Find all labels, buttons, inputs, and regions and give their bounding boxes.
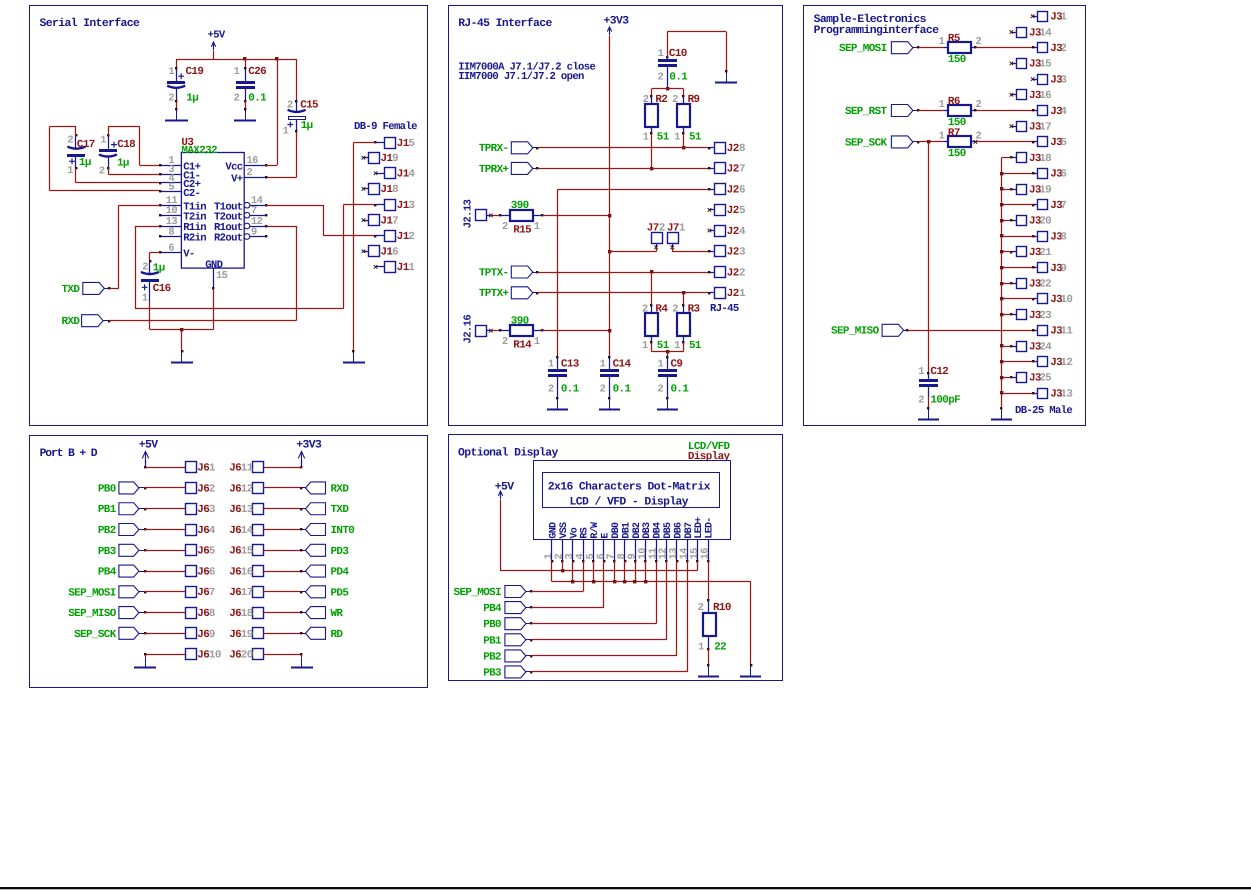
wire row B ground bus [552,581,751,583]
svg-text:15: 15 [241,546,253,558]
svg-text:2: 2 [99,165,105,177]
svg-text:J2: J2 [727,164,739,176]
svg-text:PB1: PB1 [98,504,117,516]
junction +3V3/R14 [608,329,611,332]
svg-text:J6: J6 [197,546,209,558]
svg-text:TPTX+: TPTX+ [479,288,509,300]
ground right of C10 [726,72,728,82]
connector pin J27 [715,163,726,174]
connector pin J32 [1038,43,1048,53]
svg-text:PB3: PB3 [98,546,116,558]
svg-text:12: 12 [241,483,253,495]
capacitor C15 [296,59,298,101]
svg-text:J2: J2 [727,288,739,300]
connector pin J36 [1038,169,1048,179]
svg-text:14: 14 [241,525,254,537]
ground left box4 [145,657,147,667]
connector pin J617 [253,587,264,598]
svg-text:E: E [601,533,612,539]
wire to R9 top [683,89,685,97]
sheet bottom border line [0,887,1251,889]
svg-text:3: 3 [739,247,745,259]
junction +5V/VCC [275,57,278,60]
svg-text:7: 7 [1060,200,1066,212]
connector pin J22 [715,267,726,278]
svg-text:J2.13: J2.13 [462,199,474,228]
svg-text:11: 11 [1060,326,1073,338]
svg-text:2: 2 [698,602,704,614]
connector pin J616 [253,566,264,577]
pin R2in 8 [160,236,181,238]
svg-text:1: 1 [918,366,924,378]
connector pin J321 [1017,247,1027,257]
svg-text:2: 2 [1060,43,1066,55]
svg-text:0.1: 0.1 [671,383,690,395]
connector pin J310 [1038,294,1048,304]
svg-text:15: 15 [216,270,228,282]
svg-text:RXD: RXD [61,316,80,328]
wire pin15 stub [697,561,699,570]
svg-text:13: 13 [1060,388,1072,400]
wire +5V to J61 [145,460,147,466]
pin Vcc 16 [244,165,266,167]
svg-text:Port B + D: Port B + D [40,448,98,460]
svg-text:RXD: RXD [331,483,350,495]
svg-text:14: 14 [1039,27,1052,39]
wire J619 to RD [300,632,302,634]
ground under DB-25 bus [1001,409,1003,420]
connector pin J37 [1038,200,1048,210]
svg-text:1µ: 1µ [186,93,198,105]
net flag WR [306,607,326,619]
svg-text:1: 1 [234,66,240,78]
junction bus J36 [1000,172,1003,175]
svg-text:C2-: C2- [183,188,200,200]
svg-text:PD3: PD3 [331,546,349,558]
svg-text:R9: R9 [688,94,700,106]
connector pin J61 [186,462,197,473]
wire +3V3 to J72 [609,251,656,253]
svg-text:25: 25 [1039,373,1051,385]
wire C15 to V+ [296,132,298,178]
wire row B to ground right [750,582,752,666]
svg-text:1: 1 [548,358,554,370]
wire bus to J37 [1002,204,1033,206]
svg-text:PB0: PB0 [98,483,116,495]
pin V+ 2 [244,177,266,179]
svg-text:1: 1 [1060,12,1067,24]
wire pin5 to row B [593,561,595,582]
svg-text:J6: J6 [229,629,241,641]
junction bus J321 [1000,250,1003,253]
wire C26 to ground [245,101,247,109]
ground under C19 [176,110,178,121]
wire R9 to TPRX- [683,133,685,147]
junction ground net [180,328,183,331]
svg-text:3: 3 [408,200,414,212]
capacitor C9 [666,356,668,358]
frame Port B + D [30,436,428,688]
wire SEP_RST to R6 [917,109,919,111]
junction +5V/C26 [243,57,246,60]
pin T1in 11 [160,205,181,207]
connector pin J68 [186,608,197,619]
frame Sample-Electronics Programminginterface [804,6,1086,426]
wire R4/R3 bottoms to C9 [651,343,653,352]
svg-text:2: 2 [672,303,678,315]
wire PB1 to J63 [144,508,146,510]
svg-text:5: 5 [168,182,174,194]
connector pin J322 [1017,279,1027,289]
wire SEP_MOSI to J67 [144,591,146,593]
wire pin16 to R10 [708,561,710,600]
wire RXD to R1out [108,320,110,322]
pin T2out 7 with bubble [244,212,250,218]
wire R7 to J35 [971,141,976,143]
svg-text:+5V: +5V [208,29,226,41]
svg-text:J6: J6 [229,525,241,537]
display pin DB5 12 [666,540,668,561]
wire SEP_SCK to C12 [928,142,930,373]
connector pin J614 [253,525,264,536]
svg-text:C16: C16 [153,283,171,295]
capacitor C19 [176,59,178,69]
svg-text:SEP_MOSI: SEP_MOSI [68,587,116,599]
svg-text:9: 9 [1060,263,1066,275]
junction rowB pin7 [613,580,616,583]
svg-text:1: 1 [658,358,664,370]
svg-text:J6: J6 [197,483,209,495]
capacitor C13 [556,356,558,358]
svg-text:R3: R3 [688,303,700,315]
connector pin J39 [1038,263,1048,273]
svg-text:J2: J2 [727,226,739,238]
connector pin J620 [253,649,264,660]
svg-text:DB0: DB0 [611,522,622,539]
wire bus to J39 [1002,267,1033,269]
ground under C26 [245,110,247,121]
svg-text:8: 8 [1060,231,1066,243]
connector pin J64 [186,525,197,536]
svg-text:2: 2 [658,72,664,84]
wire V- to C16 [150,252,161,254]
svg-text:R6: R6 [948,96,960,108]
svg-text:2: 2 [548,383,554,395]
svg-text:7: 7 [209,587,215,599]
ground under C13 [557,399,559,410]
svg-text:Serial Interface: Serial Interface [40,17,141,30]
display pin LED+ 15 [697,540,699,561]
ground under C9 [667,399,669,410]
capacitor C12 [928,373,930,379]
svg-text:J2: J2 [727,205,739,217]
svg-text:DB3: DB3 [642,522,653,539]
svg-text:3: 3 [209,504,215,516]
ground right box5 [750,666,752,677]
svg-text:4: 4 [209,525,216,537]
connector pin J35 [1038,137,1048,147]
junction +3V3/R15 [608,214,611,217]
connector pin J314 [1017,28,1027,38]
resistor R5 [948,42,971,53]
svg-text:2x16 Characters Dot-Matrix: 2x16 Characters Dot-Matrix [548,481,711,494]
svg-text:1: 1 [674,340,680,352]
display pin DB3 10 [645,540,647,561]
svg-text:J6: J6 [197,504,209,516]
svg-text:TXD: TXD [331,504,350,516]
display pin VSS 2 [562,540,564,561]
wire PB1 to pin12 [530,639,532,641]
frame Optional Display [449,435,783,681]
connector pin J63 [186,504,197,515]
svg-text:C10: C10 [669,48,687,60]
svg-text:PB3: PB3 [483,667,501,679]
pin T2in 10 [160,215,181,217]
svg-text:20: 20 [241,650,253,662]
svg-text:J6: J6 [229,608,241,620]
svg-text:LED-: LED- [705,517,716,538]
ground bus DB-25 [1001,158,1003,409]
display module DIS1 outline [534,461,731,540]
svg-text:22: 22 [1039,279,1051,291]
wire J618 to WR [300,611,302,613]
display pin DB2 9 [635,540,637,561]
svg-text:8: 8 [739,143,745,155]
svg-text:C19: C19 [186,66,204,78]
svg-text:TXD: TXD [61,284,80,296]
svg-text:J2: J2 [727,184,739,196]
svg-text:IIM7000 J7.1/J7.2 open: IIM7000 J7.1/J7.2 open [458,71,584,83]
svg-text:1: 1 [408,262,415,274]
connector pin J62 [186,483,197,494]
junction bus J38 [1000,234,1003,237]
+5V supply symbol P1 [211,42,215,51]
wire J26 to C13 [558,189,710,191]
svg-text:6: 6 [168,242,174,254]
svg-text:PB1: PB1 [483,635,502,647]
svg-text:4: 4 [739,226,746,238]
connector pin J67 [186,587,197,598]
svg-text:16: 16 [247,155,259,167]
junction rowB pin3 [571,580,574,583]
svg-text:J6: J6 [197,608,209,620]
svg-text:R10: R10 [713,602,731,614]
svg-text:R4: R4 [655,303,668,315]
junction bus J39 [1000,266,1003,269]
capacitor C14 [608,356,610,358]
svg-text:1: 1 [939,130,945,142]
wire C12 to ground [928,397,930,408]
svg-text:+3V3: +3V3 [604,16,630,28]
svg-text:2: 2 [642,303,648,315]
svg-text:RD: RD [331,629,344,641]
wire SEP_MISO to J311 [906,329,908,331]
connector pin J619 [253,628,264,639]
svg-text:J2: J2 [727,143,739,155]
svg-text:1: 1 [168,66,174,78]
connector pin J11 [385,262,396,273]
svg-text:J6: J6 [229,566,241,578]
connector pin J15 [385,138,396,149]
wire J610 to ground [145,654,185,656]
svg-text:Programminginterface: Programminginterface [814,24,939,37]
connector pin J325 [1017,373,1027,383]
wire R5 to J32 [971,47,976,49]
svg-text:J6: J6 [197,463,209,475]
svg-text:R15: R15 [513,224,531,236]
wire TPRX- to J28 [536,147,538,149]
svg-text:24: 24 [1039,341,1052,353]
svg-text:2: 2 [408,231,414,243]
svg-text:SEP_RST: SEP_RST [845,106,888,118]
svg-text:R7: R7 [948,127,960,139]
pin C1- 3 [160,174,181,176]
junction bus J313 [1000,391,1003,394]
svg-text:10: 10 [1060,294,1072,306]
wire pin7 to row B [614,561,616,582]
junction rowB pin5 [592,580,595,583]
svg-text:0.1: 0.1 [561,383,580,395]
wire bus to J36 [1002,173,1033,175]
svg-text:19: 19 [1039,184,1051,196]
svg-text:0.1: 0.1 [669,72,688,84]
wire GND pin down [213,288,215,329]
connector pin J319 [1017,185,1027,195]
svg-text:0.1: 0.1 [248,93,267,105]
svg-text:6: 6 [1060,169,1066,181]
svg-text:16: 16 [699,548,711,560]
junction TPTX-/R4 [650,270,653,273]
resistor R9 [683,97,685,105]
svg-text:4: 4 [1060,106,1067,118]
wire PB2 to pin13 [530,655,532,657]
junction +3V3/J23 [608,250,611,253]
svg-text:2: 2 [168,93,174,105]
svg-text:100pF: 100pF [930,394,960,406]
svg-text:3: 3 [1060,74,1066,86]
wire bus to J310 [1002,298,1033,300]
wire J2.16 to R14 [491,330,501,332]
connector pin J613 [253,504,264,515]
svg-text:2: 2 [234,93,240,105]
svg-text:9: 9 [209,629,215,641]
wire bus to J323 [1002,314,1012,316]
svg-text:20: 20 [1039,216,1051,228]
wire TPTX+ to J21 [536,292,538,294]
connector pin J323 [1017,310,1027,320]
wire row A +5V to VSS/LED+ [500,570,698,572]
svg-text:J6: J6 [197,587,209,599]
net flag TXD [306,503,326,515]
svg-text:WR: WR [331,608,344,620]
junction bus J319 [1000,187,1003,190]
connector pin J618 [253,608,264,619]
svg-text:1: 1 [283,126,289,138]
svg-text:J6: J6 [229,504,241,516]
connector pin J31 [1038,12,1048,22]
wire C10.1 to ground right [667,32,669,58]
svg-text:1: 1 [642,340,648,352]
svg-text:SEP_SCK: SEP_SCK [845,137,888,149]
display pin DB4 11 [656,540,658,561]
svg-text:INT0: INT0 [331,525,355,537]
svg-text:DB6: DB6 [673,522,684,539]
svg-text:1: 1 [939,99,945,111]
svg-text:2: 2 [739,267,745,279]
pin C2+ 4 [160,182,181,184]
connector pin J14 [385,168,396,179]
svg-text:2: 2 [918,394,924,406]
frame RJ-45 Interface [449,6,783,426]
wire +5V stub [213,51,215,59]
connector pin J26 [715,184,726,195]
junction bus J323 [1000,313,1003,316]
svg-text:21: 21 [1039,247,1052,259]
wire J620 to ground [263,654,301,656]
wire +3V3 to J611 [301,460,303,466]
frame Serial Interface [30,6,428,426]
svg-text:DB4: DB4 [653,522,664,539]
svg-text:5: 5 [1060,137,1066,149]
svg-text:5: 5 [209,546,215,558]
svg-text:2: 2 [600,383,606,395]
connector pin J25 [715,205,726,216]
svg-text:PB2: PB2 [483,651,501,663]
ground under DB-9 [353,352,355,362]
wire +3V3 rail down to C14 [609,36,611,358]
connector pin J311 [1038,326,1048,336]
svg-text:PD5: PD5 [331,587,349,599]
wire J2.13 to R15 [491,215,501,217]
svg-text:1: 1 [100,134,106,146]
svg-text:1: 1 [658,48,664,60]
connector pin J65 [186,545,197,556]
ground under MAX232 [181,352,183,363]
wire bus to J325 [1002,377,1012,379]
net flag RD [306,627,326,639]
svg-text:TPRX+: TPRX+ [479,164,509,176]
junction rowA pin2 [561,569,564,572]
junction bus J325 [1000,376,1003,379]
svg-text:17: 17 [1039,122,1051,134]
wire R14 to +3V3 [533,330,542,332]
svg-text:1: 1 [643,132,649,144]
wire bus to J319 [1002,189,1012,191]
svg-text:8: 8 [392,184,398,196]
wire SEP_SCK to J69 [144,632,146,634]
junction rowB pin9 [633,580,636,583]
svg-text:DB-9 Female: DB-9 Female [354,121,417,133]
net flag INT0 [306,524,326,536]
pin T1out 14 with bubble [244,202,250,208]
svg-text:6: 6 [739,184,745,196]
wire R4 top to TPTX- [651,272,653,305]
resistor R14 [510,325,533,336]
svg-text:1µ: 1µ [301,120,313,132]
svg-text:J6: J6 [229,650,241,662]
svg-text:1µ: 1µ [79,157,91,169]
svg-text:C12: C12 [930,366,948,378]
display pin Vo 3 [572,540,574,561]
svg-text:19: 19 [241,629,253,641]
wire C17.1 to C2+ [75,168,77,183]
wire PB3 to pin14 [530,671,532,673]
svg-text:SEP_MISO: SEP_MISO [831,326,880,338]
connector pin J324 [1017,342,1027,352]
svg-text:SEP_MOSI: SEP_MOSI [454,587,502,599]
ground right box4 [301,657,303,667]
wire PB4 to pin6 [530,606,532,608]
